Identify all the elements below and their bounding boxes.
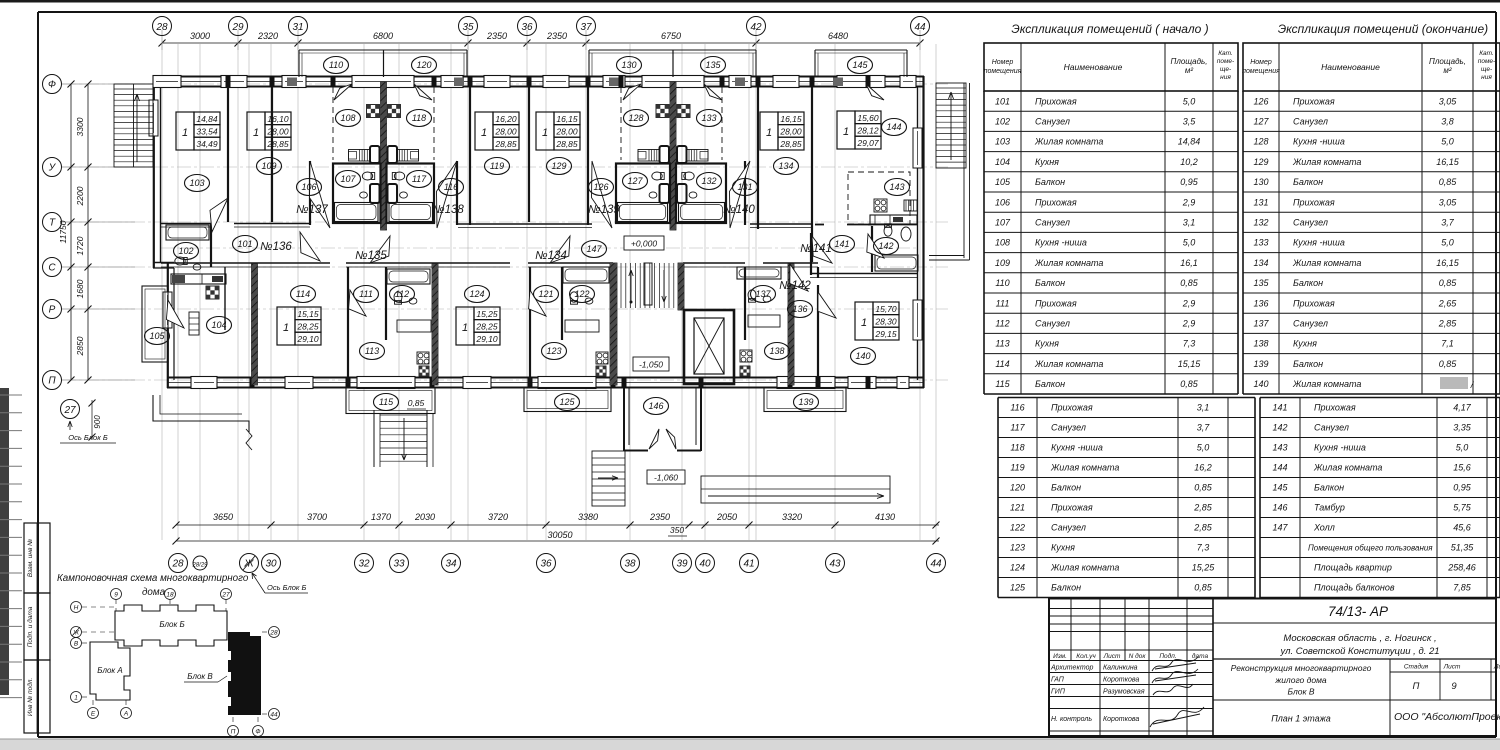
- svg-text:1680: 1680: [75, 279, 85, 298]
- svg-text:-1,060: -1,060: [654, 473, 678, 483]
- svg-text:34,49: 34,49: [196, 139, 218, 149]
- svg-text:28,00: 28,00: [266, 127, 289, 137]
- door swing: [437, 161, 458, 228]
- scheme dashed construction lines: [82, 599, 268, 726]
- horizontal axis grid lines: [62, 84, 948, 380]
- room number ellipse 137: [751, 286, 776, 303]
- svg-text:123: 123: [1010, 543, 1025, 553]
- toilet: [682, 172, 694, 180]
- window: [285, 377, 313, 389]
- svg-text:А: А: [123, 711, 128, 718]
- svg-text:№135: №135: [355, 250, 387, 262]
- washer top left: [370, 146, 380, 163]
- kitchen niche dash left A: [332, 87, 334, 160]
- svg-text:9: 9: [114, 592, 118, 599]
- signature squiggles: [1152, 657, 1198, 671]
- svg-text:135: 135: [1253, 278, 1269, 288]
- svg-text:2,9: 2,9: [1182, 319, 1196, 329]
- room number ellipse 126: [589, 179, 614, 196]
- stove: [596, 352, 608, 364]
- corridor lower wall: [161, 262, 330, 264]
- svg-text:15,25: 15,25: [1192, 563, 1216, 573]
- svg-text:126: 126: [593, 182, 608, 192]
- svg-text:Наименование: Наименование: [1064, 62, 1123, 72]
- svg-text:16,15: 16,15: [1436, 258, 1460, 268]
- svg-text:106: 106: [995, 197, 1010, 207]
- svg-text:9: 9: [1451, 681, 1457, 692]
- revision rows: [1049, 608, 1213, 610]
- svg-text:258,46: 258,46: [1447, 563, 1476, 573]
- svg-text:П: П: [231, 729, 236, 736]
- svg-text:№136: №136: [260, 241, 292, 253]
- svg-text:36: 36: [521, 22, 533, 33]
- svg-text:39: 39: [676, 559, 688, 570]
- window: [191, 377, 217, 389]
- svg-text:3720: 3720: [488, 512, 508, 522]
- scheme axis circle Ж: [71, 627, 82, 638]
- svg-text:37: 37: [580, 22, 592, 33]
- bathtub: [387, 269, 430, 284]
- apartment info box 14,84/33,54/34,49: [176, 112, 194, 150]
- svg-text:16,15: 16,15: [556, 114, 578, 124]
- room number ellipse 127: [623, 173, 648, 190]
- svg-text:125: 125: [559, 397, 575, 407]
- svg-text:6750: 6750: [661, 31, 681, 41]
- scheme axis circle 28: [269, 627, 280, 638]
- kitchen niche dash left B: [620, 87, 622, 160]
- svg-text:Архитектор: Архитектор: [1050, 665, 1093, 672]
- svg-text:0,85: 0,85: [1439, 177, 1458, 187]
- exterior stair right: [936, 83, 966, 168]
- svg-text:помещения: помещения: [1242, 68, 1280, 75]
- vent shaft: [388, 105, 401, 118]
- window: [729, 76, 751, 88]
- svg-text:110: 110: [329, 60, 343, 70]
- svg-text:1: 1: [283, 322, 289, 334]
- svg-text:28,85: 28,85: [555, 139, 578, 149]
- svg-text:112: 112: [395, 289, 409, 299]
- svg-text:Московская область , г. Ногинс: Московская область , г. Ногинск ,: [1283, 633, 1436, 644]
- svg-text:147: 147: [1272, 523, 1288, 533]
- svg-text:№134: №134: [535, 250, 567, 262]
- svg-text:Ось Блок Б: Ось Блок Б: [68, 433, 108, 442]
- room number ellipse 132: [697, 173, 722, 190]
- window: [221, 76, 247, 88]
- svg-text:29,10: 29,10: [296, 334, 319, 344]
- washer top left: [660, 146, 670, 163]
- vent shaft: [596, 366, 606, 376]
- svg-text:Санузел: Санузел: [1035, 117, 1070, 127]
- svg-text:5,0: 5,0: [1183, 238, 1196, 248]
- svg-text:С: С: [48, 263, 56, 274]
- svg-text:Подп. и дата: Подп. и дата: [26, 606, 34, 647]
- kitchen counter right: [398, 150, 419, 162]
- wall 138|140: [817, 285, 819, 385]
- balcony 105: [142, 286, 168, 362]
- window: [897, 377, 909, 389]
- apartment info box 15,70/28,30/29,15: [855, 302, 873, 340]
- wall hall 106 left: [309, 161, 311, 225]
- svg-text:140: 140: [855, 351, 870, 361]
- axis Zh strike: [243, 556, 255, 570]
- svg-text:135: 135: [705, 60, 721, 70]
- svg-text:115: 115: [379, 397, 394, 407]
- axis label Os Blok B: [68, 421, 72, 430]
- svg-text:2850: 2850: [75, 336, 85, 356]
- door swing: [790, 264, 808, 291]
- svg-text:28,00: 28,00: [555, 127, 578, 137]
- svg-text:29,15: 29,15: [874, 329, 897, 339]
- svg-text:Экспликация помещений (окончан: Экспликация помещений (окончание): [1278, 22, 1488, 36]
- scheme axis circle А: [121, 708, 132, 719]
- left lower wall window: [163, 292, 172, 328]
- bathtub: [737, 267, 781, 279]
- window: [777, 377, 835, 389]
- svg-text:Балкон: Балкон: [1051, 483, 1081, 493]
- room number ellipse 109: [257, 158, 282, 175]
- room number ellipse 115: [374, 394, 399, 411]
- washer mid right: [388, 184, 398, 203]
- top wall hatched piers: [287, 78, 297, 87]
- svg-text:30: 30: [265, 559, 277, 570]
- svg-text:34: 34: [445, 559, 457, 570]
- svg-text:43: 43: [829, 559, 841, 570]
- door swing: [550, 236, 570, 263]
- svg-text:м²: м²: [1185, 66, 1193, 75]
- redacted area value row 140: [1440, 377, 1468, 389]
- room number ellipse 143: [885, 179, 910, 196]
- svg-text:28,85: 28,85: [494, 139, 517, 149]
- room number ellipse 147: [582, 241, 607, 258]
- svg-text:16,20: 16,20: [495, 114, 517, 124]
- stove: [740, 350, 752, 362]
- scheme axis circle 18: [165, 589, 176, 600]
- sink: [193, 264, 201, 270]
- svg-text:0,85: 0,85: [1194, 583, 1213, 593]
- svg-text:ГАП: ГАП: [1051, 677, 1065, 684]
- svg-text:+0,000: +0,000: [631, 239, 658, 249]
- stairwell center rail: [644, 263, 652, 305]
- svg-text:Санузел: Санузел: [1051, 423, 1086, 433]
- svg-text:118: 118: [1010, 443, 1024, 453]
- room number ellipse 123: [542, 343, 567, 360]
- kitchen niche 143 dashed rect: [848, 172, 910, 224]
- corridor level label +0.000: [624, 236, 664, 250]
- corridor centre dash-dot line: [160, 247, 917, 249]
- door swing: [310, 161, 331, 228]
- hatched wall: [432, 264, 438, 385]
- svg-text:125: 125: [1010, 583, 1026, 593]
- room number ellipse 124: [465, 286, 490, 303]
- balcony 145 outline: [815, 49, 907, 51]
- window: [357, 377, 415, 389]
- svg-text:139: 139: [1253, 359, 1268, 369]
- svg-text:3,7: 3,7: [1441, 218, 1455, 228]
- svg-text:1: 1: [253, 127, 259, 139]
- svg-text:146: 146: [648, 401, 663, 411]
- svg-text:5,0: 5,0: [1456, 443, 1469, 453]
- svg-text:105: 105: [149, 331, 165, 341]
- stove: [417, 352, 429, 364]
- svg-text:15,6: 15,6: [1453, 463, 1471, 473]
- svg-text:142: 142: [1272, 423, 1287, 433]
- svg-text:Прихожая: Прихожая: [1051, 403, 1093, 413]
- svg-text:15,15: 15,15: [1178, 359, 1202, 369]
- svg-text:Блок А: Блок А: [97, 666, 123, 675]
- svg-text:3320: 3320: [782, 512, 802, 522]
- svg-text:114: 114: [995, 359, 1009, 369]
- svg-text:147: 147: [586, 244, 602, 254]
- svg-text:Площадь,: Площадь,: [1171, 57, 1208, 66]
- svg-text:132: 132: [1253, 218, 1268, 228]
- svg-text:110: 110: [995, 278, 1009, 288]
- room number ellipse 139: [794, 394, 819, 411]
- svg-text:116: 116: [444, 182, 458, 192]
- svg-text:145: 145: [852, 60, 868, 70]
- wall 134|141: [811, 87, 813, 262]
- svg-text:Изм.: Изм.: [1053, 653, 1067, 660]
- svg-text:Прихожая: Прихожая: [1314, 403, 1356, 413]
- svg-text:106: 106: [301, 182, 316, 192]
- left axis letter circles: [43, 75, 62, 94]
- room number ellipse 112: [390, 286, 415, 303]
- svg-text:102: 102: [995, 117, 1010, 127]
- scheme axis circle Ф: [253, 726, 264, 737]
- svg-text:112: 112: [995, 319, 1009, 329]
- svg-text:Ж: Ж: [72, 630, 80, 637]
- svg-text:121: 121: [1010, 503, 1025, 513]
- vent shaft: [367, 105, 380, 118]
- kitchen counter left: [349, 150, 370, 162]
- bathtub: [618, 203, 668, 222]
- wall 109 right: [271, 87, 273, 222]
- exterior stair left: [114, 84, 153, 167]
- door swing: [370, 236, 390, 263]
- svg-text:44: 44: [914, 22, 926, 33]
- svg-text:Кухня -ниша: Кухня -ниша: [1293, 238, 1345, 248]
- svg-text:104: 104: [995, 157, 1010, 167]
- kitchen niche dash right A: [433, 87, 435, 160]
- svg-text:Номер: Номер: [992, 59, 1014, 66]
- svg-text:дата: дата: [1192, 652, 1209, 660]
- svg-text:Короткова: Короткова: [1103, 677, 1139, 684]
- svg-text:ГИП: ГИП: [1051, 689, 1066, 696]
- svg-text:14,84: 14,84: [196, 114, 218, 124]
- svg-text:7,1: 7,1: [1441, 339, 1454, 349]
- right wall window upper: [913, 128, 922, 168]
- left stamp boxes: [24, 523, 50, 593]
- bathtub: [875, 255, 918, 271]
- svg-text:2,85: 2,85: [1438, 319, 1458, 329]
- svg-text:Санузел: Санузел: [1293, 319, 1328, 329]
- svg-text:28,00: 28,00: [494, 127, 517, 137]
- table header: [984, 43, 1238, 91]
- svg-text:Реконструкция многоквартирного: Реконструкция многоквартирного: [1231, 663, 1372, 673]
- svg-text:Кат.: Кат.: [1479, 50, 1494, 57]
- door swing: [866, 84, 884, 100]
- svg-text:Санузел: Санузел: [1035, 319, 1070, 329]
- svg-text:109: 109: [995, 258, 1010, 268]
- svg-text:0,85: 0,85: [1439, 359, 1458, 369]
- svg-text:Ф: Ф: [255, 729, 260, 736]
- svg-text:4,17: 4,17: [1453, 403, 1472, 413]
- svg-text:28,30: 28,30: [874, 317, 897, 327]
- svg-text:2,65: 2,65: [1438, 298, 1458, 308]
- wall 119|129: [528, 87, 530, 222]
- room number ellipse 107: [336, 171, 361, 188]
- scan top edge line: [0, 0, 1500, 3]
- svg-text:128: 128: [1253, 137, 1268, 147]
- hatched wall: [788, 264, 794, 385]
- svg-text:122: 122: [574, 289, 589, 299]
- svg-text:Н. контроль: Н. контроль: [1051, 716, 1092, 723]
- svg-text:0,95: 0,95: [1453, 483, 1472, 493]
- svg-text:Прихожая: Прихожая: [1035, 298, 1077, 308]
- room number ellipse 144: [882, 119, 907, 136]
- svg-text:Площадь квартир: Площадь квартир: [1314, 563, 1392, 573]
- room number ellipse 145: [848, 57, 873, 74]
- svg-text:Блок В: Блок В: [187, 672, 213, 681]
- top wall junction nubs: [226, 76, 231, 87]
- svg-text:Е: Е: [91, 711, 96, 718]
- room number ellipse 102: [174, 243, 199, 260]
- window: [900, 76, 916, 88]
- room number ellipse 133: [697, 110, 722, 127]
- window: [773, 76, 799, 88]
- room number ellipse 130: [617, 57, 642, 74]
- svg-text:3380: 3380: [578, 512, 598, 522]
- svg-text:144: 144: [886, 122, 901, 132]
- svg-text:104: 104: [211, 320, 226, 330]
- bottom dimension line 2: [176, 540, 939, 542]
- room number ellipse 105: [145, 328, 170, 345]
- svg-text:41: 41: [743, 559, 754, 570]
- svg-text:137: 137: [1253, 319, 1269, 329]
- apartment info box 16,15/28,00/28,85: [760, 112, 778, 150]
- toilet: [748, 290, 756, 302]
- tambour 146 walls: [623, 388, 625, 451]
- svg-text:117: 117: [1010, 423, 1025, 433]
- left binding bar: [0, 388, 9, 695]
- svg-text:Кухня -ниша: Кухня -ниша: [1035, 238, 1087, 248]
- hatched wall: [381, 82, 387, 230]
- left wall window: [149, 100, 158, 136]
- window: [837, 76, 885, 88]
- svg-text:42: 42: [750, 22, 762, 33]
- svg-text:№142: №142: [779, 280, 811, 292]
- svg-text:103: 103: [995, 137, 1010, 147]
- svg-text:Балкон: Балкон: [1035, 278, 1065, 288]
- door swing: [166, 300, 184, 328]
- svg-text:0,95: 0,95: [1180, 177, 1199, 187]
- wall 131|134: [757, 87, 759, 229]
- svg-text:Прихожая: Прихожая: [1035, 197, 1077, 207]
- svg-text:Холл: Холл: [1313, 523, 1335, 533]
- svg-text:29,07: 29,07: [856, 138, 879, 148]
- svg-text:3,05: 3,05: [1439, 197, 1458, 207]
- svg-text:144: 144: [1272, 463, 1287, 473]
- svg-text:1: 1: [74, 695, 78, 702]
- svg-text:3,1: 3,1: [1183, 218, 1196, 228]
- door swing: [349, 290, 366, 316]
- svg-text:123: 123: [546, 346, 561, 356]
- svg-text:134: 134: [778, 161, 793, 171]
- scheme axis circle 9: [111, 589, 122, 600]
- svg-text:Кухня: Кухня: [1035, 339, 1059, 349]
- washer mid right: [677, 184, 687, 203]
- washer mid left: [370, 184, 380, 203]
- svg-text:40: 40: [699, 559, 711, 570]
- svg-text:45,6: 45,6: [1453, 523, 1471, 533]
- svg-text:ния: ния: [1220, 74, 1231, 81]
- svg-text:Ли: Ли: [1493, 664, 1500, 671]
- svg-text:дома: дома: [142, 587, 166, 598]
- svg-text:118: 118: [412, 113, 426, 123]
- svg-text:Жилая комната: Жилая комната: [1050, 563, 1119, 573]
- svg-text:Короткова: Короткова: [1103, 716, 1139, 723]
- svg-text:28,85: 28,85: [266, 139, 289, 149]
- svg-text:Р: Р: [49, 305, 56, 316]
- svg-text:5,0: 5,0: [1197, 443, 1210, 453]
- svg-text:137: 137: [755, 289, 771, 299]
- svg-text:2,85: 2,85: [1193, 503, 1213, 513]
- bathtub: [679, 203, 725, 222]
- svg-text:107: 107: [340, 174, 356, 184]
- svg-text:Кат.: Кат.: [1218, 50, 1233, 57]
- svg-text:м²: м²: [1443, 66, 1451, 75]
- svg-text:105: 105: [995, 177, 1011, 187]
- bath 137 left wall: [744, 267, 746, 340]
- room number ellipse 118: [407, 110, 432, 127]
- svg-text:136: 136: [1253, 298, 1268, 308]
- svg-text:Балкон: Балкон: [1035, 177, 1065, 187]
- svg-text:120: 120: [1010, 483, 1025, 493]
- bath room right: [676, 164, 726, 224]
- svg-text:33,54: 33,54: [196, 127, 218, 137]
- room number ellipse 101: [233, 236, 258, 253]
- svg-text:115: 115: [995, 379, 1010, 389]
- fridge 104: [189, 312, 199, 335]
- entrance stair outside: [592, 451, 625, 506]
- svg-text:7,3: 7,3: [1183, 339, 1196, 349]
- svg-text:114: 114: [296, 289, 310, 299]
- room number ellipse 108: [336, 110, 361, 127]
- svg-text:900: 900: [93, 415, 102, 429]
- toilet: [362, 172, 374, 180]
- bathtub: [389, 203, 433, 222]
- svg-text:122: 122: [1010, 523, 1025, 533]
- vent shaft: [206, 286, 219, 299]
- svg-text:10,2: 10,2: [1180, 157, 1198, 167]
- svg-text:32: 32: [358, 559, 370, 570]
- svg-text:30050: 30050: [547, 530, 572, 540]
- window: [848, 377, 876, 389]
- svg-text:16,2: 16,2: [1194, 463, 1212, 473]
- svg-text:№140: №140: [723, 204, 755, 216]
- svg-text:107: 107: [995, 218, 1011, 228]
- svg-text:ния: ния: [1481, 74, 1492, 81]
- room number ellipse 120: [412, 57, 437, 74]
- window: [538, 377, 596, 389]
- svg-text:116: 116: [1010, 403, 1024, 413]
- svg-text:145: 145: [1272, 483, 1288, 493]
- door swing: [210, 198, 228, 232]
- washer mid left: [660, 184, 670, 203]
- room number ellipse 129: [547, 158, 572, 175]
- svg-text:11750: 11750: [58, 220, 68, 243]
- svg-text:Прихожая: Прихожая: [1293, 197, 1335, 207]
- scheme axis circle 1: [71, 692, 82, 703]
